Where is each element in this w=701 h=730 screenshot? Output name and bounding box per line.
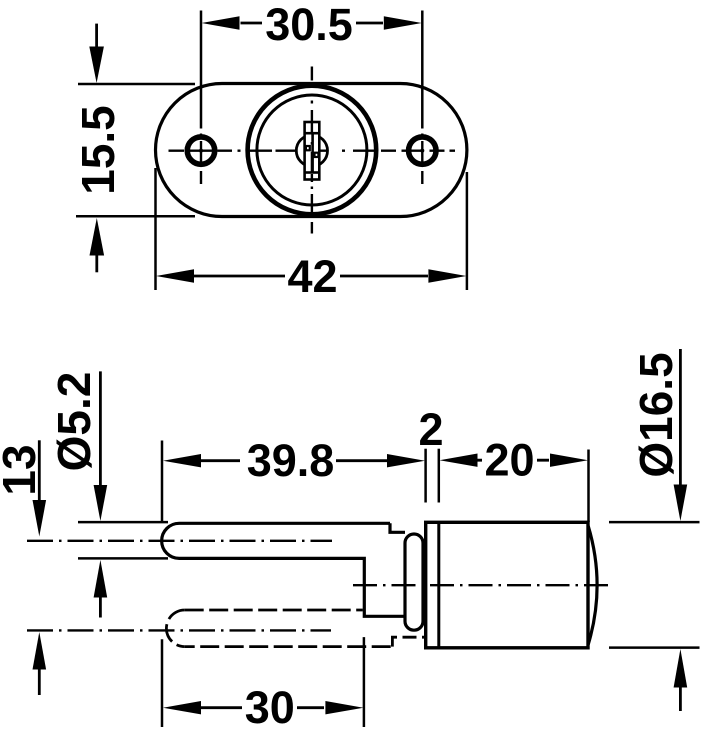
cylinder inner circle xyxy=(257,95,367,205)
dim 20 right arrowhead xyxy=(550,454,588,467)
dim o16.5 line upper xyxy=(679,349,682,485)
dim 30 line xyxy=(200,706,324,709)
cylinder body xyxy=(426,522,588,648)
dim 30 left arrowhead xyxy=(163,701,201,714)
dim 13 down arrowhead xyxy=(33,500,47,537)
dim o5.2 extension bottom xyxy=(78,557,168,560)
svg-text:15.5: 15.5 xyxy=(72,105,124,195)
dim o5.2 down arrowhead xyxy=(94,485,108,521)
cylinder axis centerline xyxy=(353,584,612,586)
upper centerline (lever axis) xyxy=(27,540,332,542)
dim 39.8 line xyxy=(200,459,387,462)
hidden lever bottom edge xyxy=(185,645,393,648)
dim 20 line xyxy=(477,459,549,462)
dim 42 left arrowhead xyxy=(156,269,194,282)
key slot left notch xyxy=(306,146,310,150)
svg-text:Ø16.5: Ø16.5 xyxy=(630,352,682,477)
dim 20 left arrowhead xyxy=(440,454,478,467)
cam lever outline (solid position) xyxy=(162,523,404,616)
horizontal centerline top view xyxy=(169,149,456,151)
dim o16.5 down arrowhead xyxy=(674,485,688,522)
dim 15.5 top arrowhead xyxy=(89,47,104,84)
dim o5.2 line lower shaft xyxy=(99,597,102,618)
svg-text:42: 42 xyxy=(287,251,337,302)
left hole center dot xyxy=(199,149,203,153)
dim 30 right arrowhead xyxy=(325,701,363,714)
dim o16.5 line lower shaft xyxy=(679,687,682,711)
left screw hole xyxy=(187,137,214,164)
dim 30.5 left arrowhead xyxy=(202,16,240,29)
dim 15.5 bottom arrow shaft xyxy=(95,255,98,272)
left hole vertical centerline xyxy=(200,134,202,185)
cam lever right step xyxy=(390,523,405,532)
dim o16.5 extension top xyxy=(609,521,700,524)
svg-text:13: 13 xyxy=(0,444,45,495)
hidden cam lever (rotated position, dashed) xyxy=(166,610,184,647)
flange capsule xyxy=(405,534,423,630)
right hole center dot xyxy=(420,149,424,153)
dim o5.2 line upper xyxy=(99,371,102,486)
dim 15.5 extension line top xyxy=(78,83,195,86)
dim 13 line upper xyxy=(38,440,41,501)
key slot outer rectangle xyxy=(305,122,320,180)
svg-text:20: 20 xyxy=(484,435,534,486)
dim 30.5 extension line right xyxy=(421,11,424,129)
dim 15.5 extension line bottom xyxy=(76,215,195,218)
dim o16.5 up arrowhead xyxy=(674,649,688,688)
mounting plate outline (stadium) xyxy=(156,84,467,217)
dim o5.2 extension top xyxy=(78,521,168,524)
dim 39.8 extension left xyxy=(161,441,164,524)
cylinder outer circle xyxy=(248,86,377,215)
dim o5.2 up arrowhead xyxy=(94,560,108,598)
dim 39.8 right arrowhead xyxy=(387,454,425,467)
svg-text:2: 2 xyxy=(418,404,443,455)
svg-text:39.8: 39.8 xyxy=(247,435,335,486)
dim 30.5 extension line left xyxy=(200,11,203,129)
dim o16.5 extension bottom xyxy=(609,646,700,649)
key core small circle xyxy=(296,135,327,166)
dim 42 right arrowhead xyxy=(428,269,466,282)
key slot right notch xyxy=(315,153,319,157)
svg-text:30.5: 30.5 xyxy=(265,0,353,50)
hidden lever top edge xyxy=(185,609,363,612)
dim 30 extension right xyxy=(363,637,366,727)
cylinder groove line xyxy=(437,522,440,648)
right hole vertical centerline xyxy=(421,134,423,185)
dim 13 up arrowhead xyxy=(33,632,47,670)
dim 30.5 line xyxy=(241,22,384,25)
dim 2 extension lines xyxy=(424,449,427,503)
svg-text:Ø5.2: Ø5.2 xyxy=(48,372,100,472)
dim 13 line lower shaft xyxy=(38,669,41,695)
key slot lower cross line xyxy=(305,171,320,174)
dim 30.5 right arrowhead xyxy=(384,16,422,29)
key slot upper cross line xyxy=(305,132,320,135)
svg-text:30: 30 xyxy=(245,682,295,730)
right screw hole xyxy=(409,137,436,164)
dim 15.5 top arrow shaft xyxy=(95,24,98,47)
dim 20 extension right xyxy=(587,450,590,523)
vertical centerline cylinder xyxy=(311,67,313,234)
cylinder barrel end arc xyxy=(588,526,597,645)
dim 30 extension left xyxy=(161,639,164,727)
dim 42 line xyxy=(194,275,428,278)
dim 15.5 bottom arrowhead xyxy=(90,218,105,256)
dim 39.8 left arrowhead xyxy=(163,454,201,467)
hidden lever step xyxy=(392,637,424,646)
dim 42 extension line right xyxy=(466,172,469,290)
key slot middle divider xyxy=(311,133,314,172)
lower centerline (hidden lever axis) xyxy=(27,629,331,631)
dim 42 extension line left xyxy=(154,168,157,290)
